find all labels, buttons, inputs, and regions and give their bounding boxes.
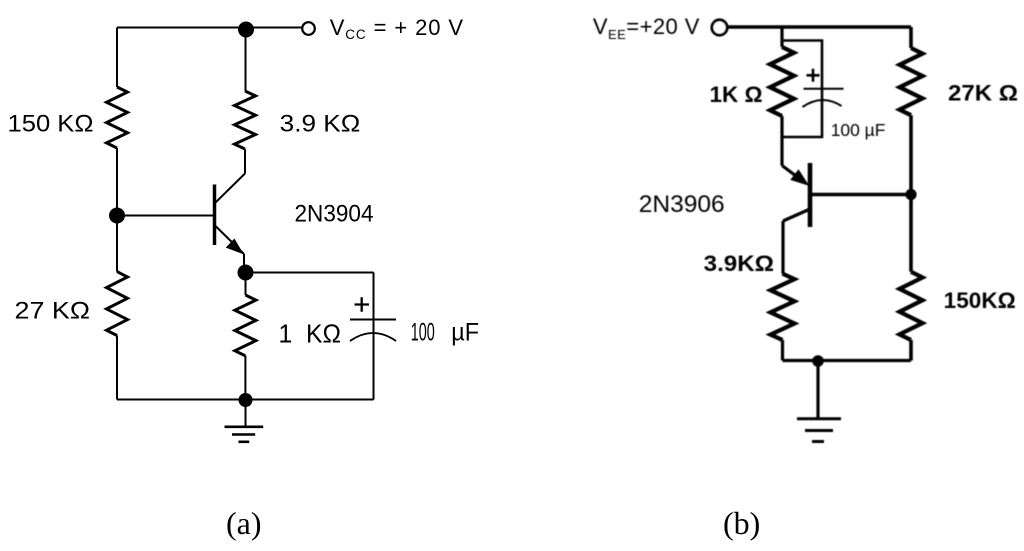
svg-text:VCC = + 20 V: VCC = + 20 V [330,15,464,42]
svg-text:1 KΩ: 1 KΩ [279,320,342,348]
svg-text:100 µF: 100 µF [831,120,886,140]
svg-text:2N3904: 2N3904 [295,200,374,227]
svg-text:1K Ω: 1K Ω [710,82,763,107]
svg-text:150KΩ: 150KΩ [944,288,1016,313]
svg-text:VEE=+20 V: VEE=+20 V [593,14,700,42]
svg-text:150 KΩ: 150 KΩ [8,111,94,138]
svg-text:27K Ω: 27K Ω [948,81,1018,106]
svg-text:(b): (b) [723,505,760,541]
svg-text:100µF: 100µF [411,318,479,346]
svg-text:3.9KΩ: 3.9KΩ [704,251,774,276]
svg-text:2N3906: 2N3906 [639,191,725,218]
svg-text:3.9 KΩ: 3.9 KΩ [280,111,361,138]
svg-text:27 KΩ: 27 KΩ [15,297,91,324]
svg-text:(a): (a) [226,505,262,541]
